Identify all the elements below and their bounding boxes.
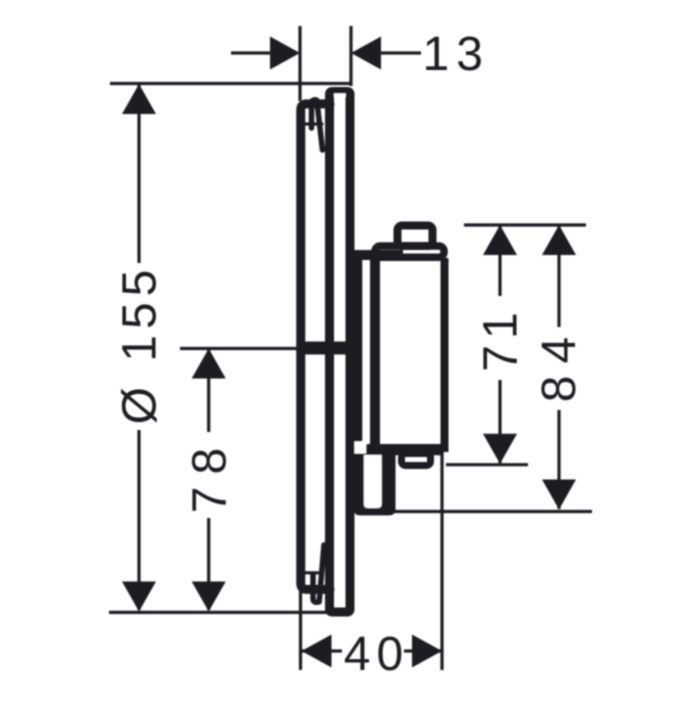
- svg-text:71: 71: [475, 306, 528, 371]
- svg-text:40: 40: [344, 628, 409, 681]
- svg-text:13: 13: [423, 28, 490, 81]
- svg-text:84: 84: [533, 325, 586, 402]
- svg-text:Ø 155: Ø 155: [114, 264, 167, 425]
- svg-text:78: 78: [184, 436, 237, 513]
